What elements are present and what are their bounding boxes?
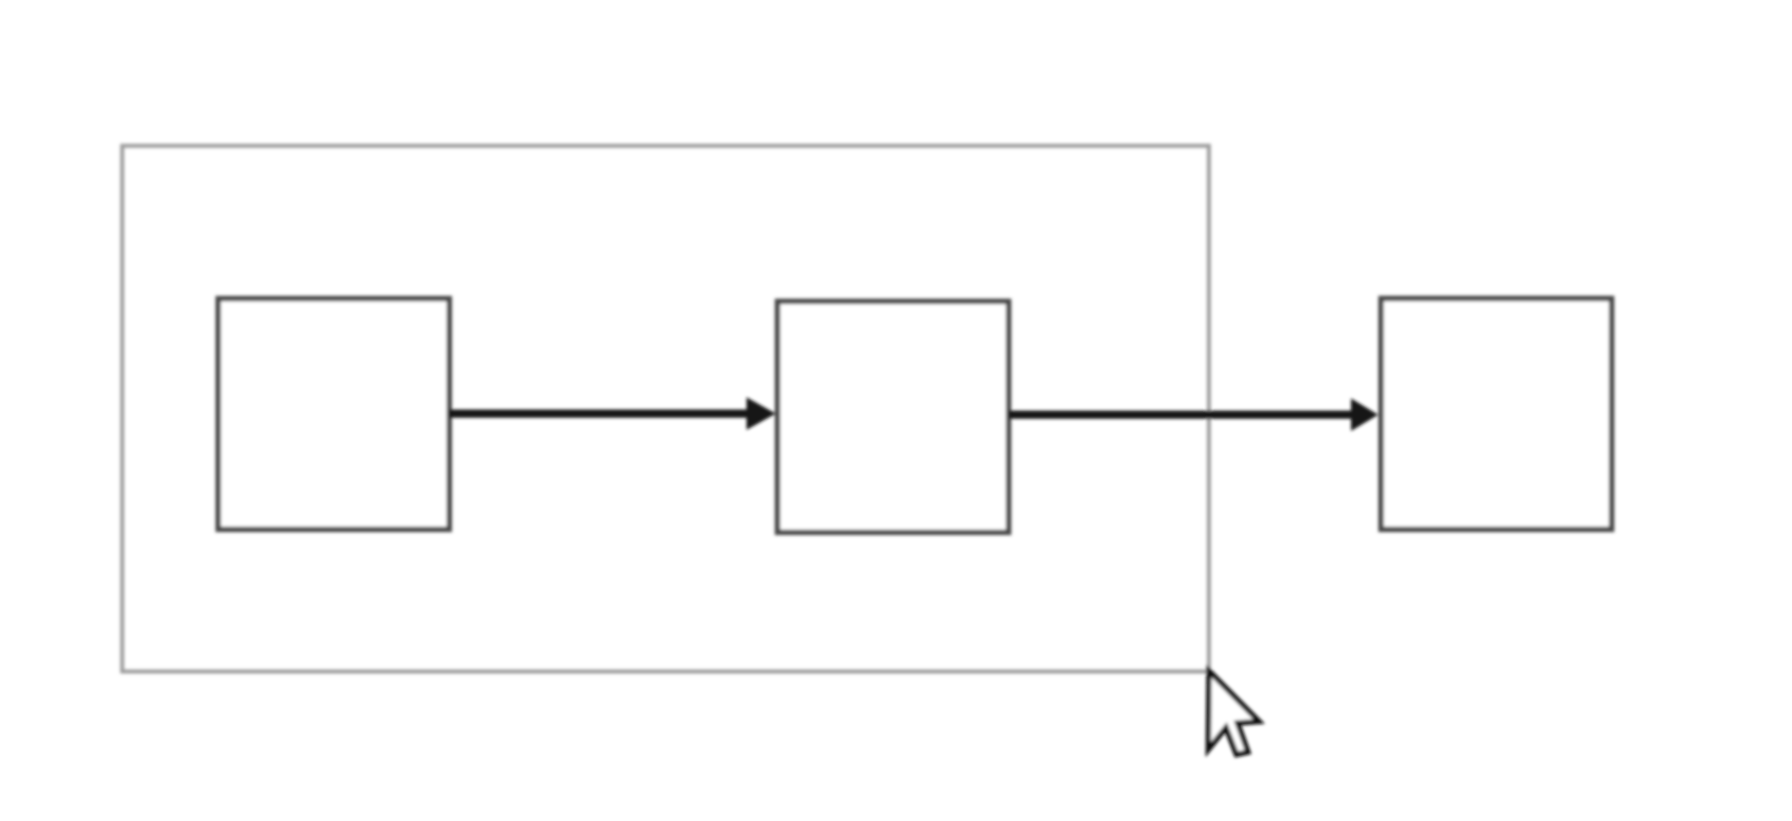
- mouse cursor: [1208, 671, 1259, 755]
- connector arrow 2 (box2 to box3): [1009, 398, 1379, 431]
- connector arrow 1 (box1 to box2): [449, 397, 776, 430]
- box 2 (middle square): [778, 301, 1009, 532]
- selection rectangle (rubber band): [122, 146, 1209, 672]
- box 1 (left square): [218, 299, 449, 530]
- box 3 (right square): [1381, 299, 1612, 530]
